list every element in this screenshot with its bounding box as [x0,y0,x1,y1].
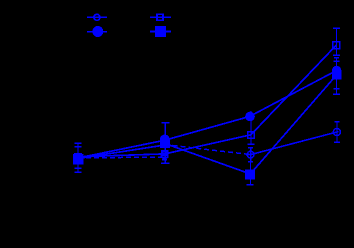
series open square: segment 2-3 [165,135,251,154]
series filled square: segment 2-3 [165,144,250,174]
cluster3 error bar open circle [250,148,252,162]
series filled circle: segment 2-3 [165,117,250,141]
legend marker open circle [94,14,100,20]
cluster4 error bar open square [335,28,337,55]
legend line filled-square series [150,31,171,33]
cluster1 marker open square [75,154,82,161]
cluster1 error bar inner [75,146,82,148]
cluster3 marker open square [248,132,254,138]
series filled square: segment 3-4 [250,75,337,174]
cluster2 marker filled square [160,138,170,148]
series filled square: segment 1-2 [78,145,165,159]
legend line open-square series [150,16,171,18]
series filled circle: segment 3-4 [250,71,337,117]
cluster1 marker open circle [75,154,82,161]
legend marker open square [157,14,163,20]
legend marker filled square [155,26,166,37]
series open circle: segment 2-3 dashed shallow descent [165,145,251,155]
cluster3 error bar open square [250,111,252,144]
series open square: segment 1-2 [78,154,165,157]
cluster2 marker filled circle [160,135,170,145]
cluster4 marker open circle [333,128,340,135]
cluster3 marker filled square [245,170,255,180]
series filled circle: segment 1-2 [78,140,165,158]
cluster2 error bar tall [164,123,166,164]
cluster4 error bars filled markers [336,58,338,95]
cluster1 marker filled square [73,154,84,165]
legend marker filled circle [92,26,103,37]
series open circle: segment 3-4 dashed [251,132,337,155]
cluster2 marker open square [162,151,168,157]
legend line open-circle series [87,16,107,18]
legend line filled-circle series [87,31,107,33]
cluster3 marker open circle [247,151,254,158]
cluster4 marker open square [333,42,340,49]
cluster1 marker filled circle [74,153,83,162]
series open circle: segment 1-2 dashed flat [78,157,165,158]
open circle line stub c3 [246,154,255,155]
cluster2 marker open circle [161,152,168,159]
cluster3 marker filled circle [245,112,255,122]
cluster4 error bar open circle [336,122,338,143]
open circle line stub c2 [161,154,168,156]
open circle line stub c4 [333,132,339,133]
cluster4 marker filled circle [332,66,341,75]
cluster4 marker filled square [332,70,341,79]
cluster3 error bar filled square [249,162,251,185]
series open square: segment 3-4 [251,45,337,135]
cluster1 error bar outer [77,143,79,172]
